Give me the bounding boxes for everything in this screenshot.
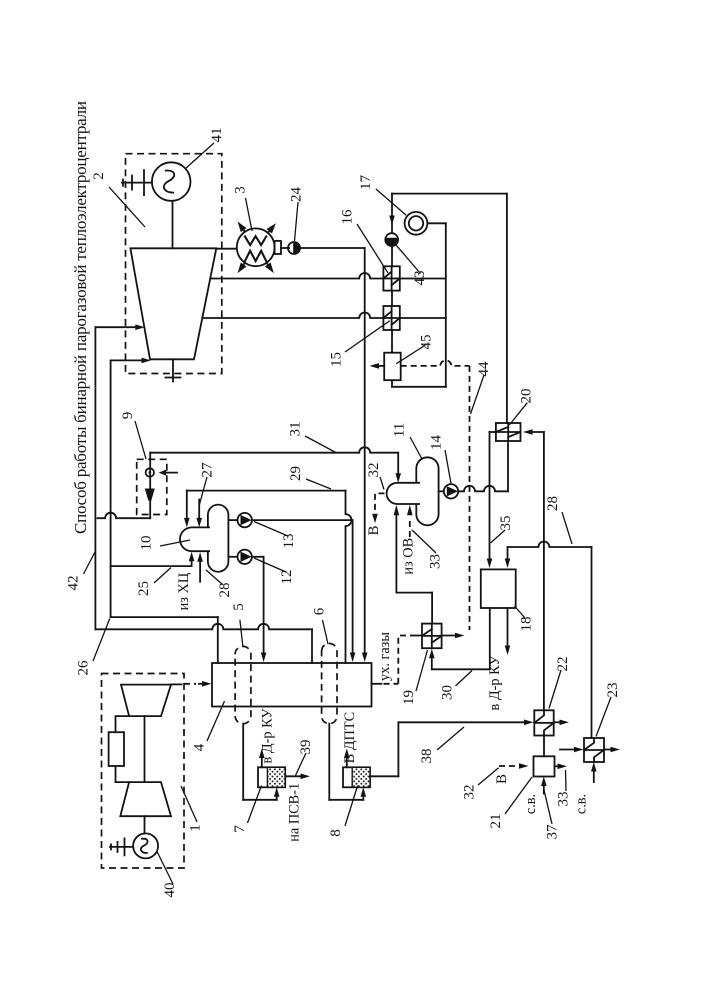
svg-text:В ДПТС: В ДПТС [342, 712, 358, 763]
svg-text:30: 30 [440, 685, 456, 700]
svg-text:37: 37 [544, 824, 560, 840]
svg-text:39: 39 [298, 740, 314, 755]
svg-text:из ОВ: из ОВ [401, 538, 417, 575]
svg-text:в Д-р КУ: в Д-р КУ [487, 655, 503, 711]
svg-text:1: 1 [188, 824, 204, 832]
svg-text:24: 24 [289, 187, 305, 203]
svg-text:из ХЦ: из ХЦ [176, 573, 192, 611]
svg-text:ух. газы: ух. газы [377, 632, 393, 681]
svg-text:в Д-р КУ: в Д-р КУ [260, 708, 276, 764]
svg-text:11: 11 [392, 423, 408, 437]
svg-text:29: 29 [288, 466, 304, 481]
svg-text:19: 19 [401, 690, 417, 705]
svg-text:33: 33 [428, 554, 444, 569]
svg-text:23: 23 [605, 683, 621, 698]
svg-text:с.в.: с.в. [523, 794, 539, 814]
svg-text:9: 9 [120, 412, 136, 420]
svg-text:40: 40 [162, 883, 178, 898]
svg-text:2: 2 [91, 172, 107, 180]
svg-text:21: 21 [488, 814, 504, 829]
svg-text:14: 14 [428, 435, 444, 451]
svg-text:с.в.: с.в. [574, 794, 590, 814]
svg-text:32: 32 [462, 785, 478, 800]
svg-text:41: 41 [209, 128, 225, 143]
svg-text:38: 38 [419, 749, 435, 764]
svg-text:7: 7 [232, 825, 248, 833]
svg-text:В: В [494, 774, 510, 784]
svg-text:Способ работы бинарной парогаз: Способ работы бинарной парогазовой тепло… [71, 101, 90, 534]
svg-text:44: 44 [476, 361, 492, 377]
svg-text:13: 13 [281, 534, 297, 549]
svg-text:17: 17 [358, 175, 374, 191]
svg-text:18: 18 [519, 617, 535, 632]
svg-text:28: 28 [545, 496, 561, 511]
svg-text:15: 15 [329, 352, 345, 367]
svg-text:8: 8 [328, 829, 344, 837]
svg-text:на ПСВ-1: на ПСВ-1 [286, 783, 302, 842]
svg-text:32: 32 [366, 463, 382, 478]
svg-text:20: 20 [519, 389, 535, 404]
svg-text:5: 5 [231, 603, 247, 611]
svg-text:3: 3 [233, 186, 249, 194]
svg-text:27: 27 [200, 462, 216, 478]
svg-text:42: 42 [66, 576, 82, 591]
svg-text:22: 22 [555, 657, 571, 672]
svg-text:26: 26 [76, 660, 92, 676]
svg-text:4: 4 [191, 743, 207, 751]
svg-text:35: 35 [498, 516, 514, 531]
svg-text:25: 25 [136, 581, 152, 596]
svg-text:6: 6 [312, 607, 328, 615]
svg-text:31: 31 [288, 422, 304, 437]
svg-text:10: 10 [139, 536, 155, 551]
svg-text:В: В [366, 525, 382, 535]
svg-text:33: 33 [555, 792, 571, 807]
svg-text:28: 28 [217, 583, 233, 598]
svg-text:12: 12 [279, 570, 295, 585]
svg-text:16: 16 [340, 209, 356, 225]
